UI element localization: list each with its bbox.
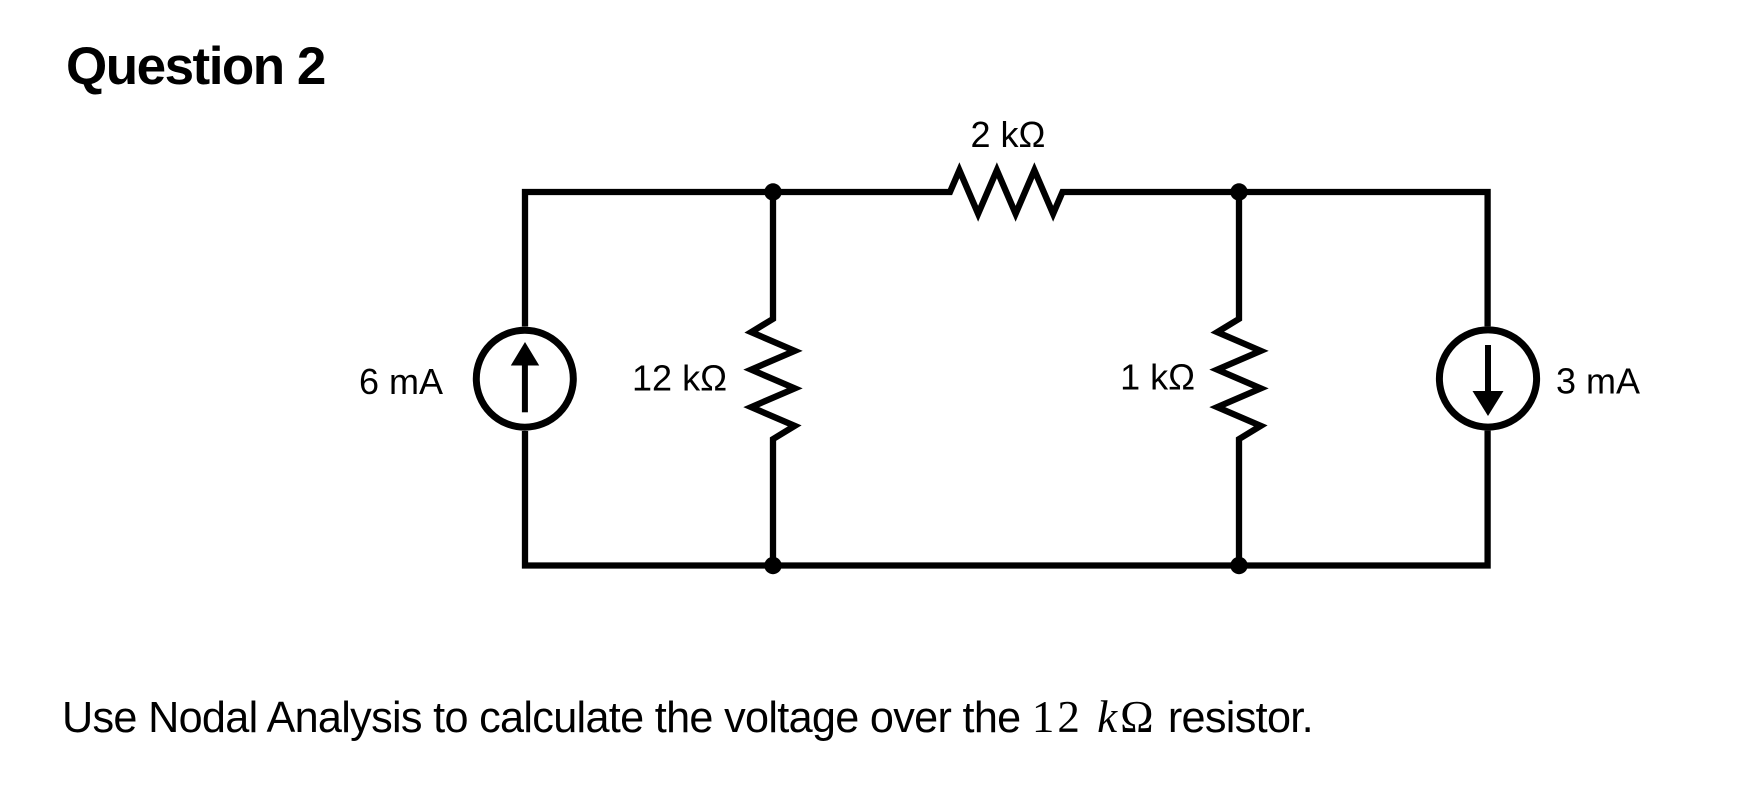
svg-text:12 kΩ: 12 kΩ	[632, 358, 727, 399]
svg-text:6 mA: 6 mA	[359, 361, 443, 402]
svg-text:3 mA: 3 mA	[1556, 361, 1640, 402]
svg-text:2 kΩ: 2 kΩ	[971, 114, 1046, 155]
svg-text:1 kΩ: 1 kΩ	[1120, 357, 1195, 398]
